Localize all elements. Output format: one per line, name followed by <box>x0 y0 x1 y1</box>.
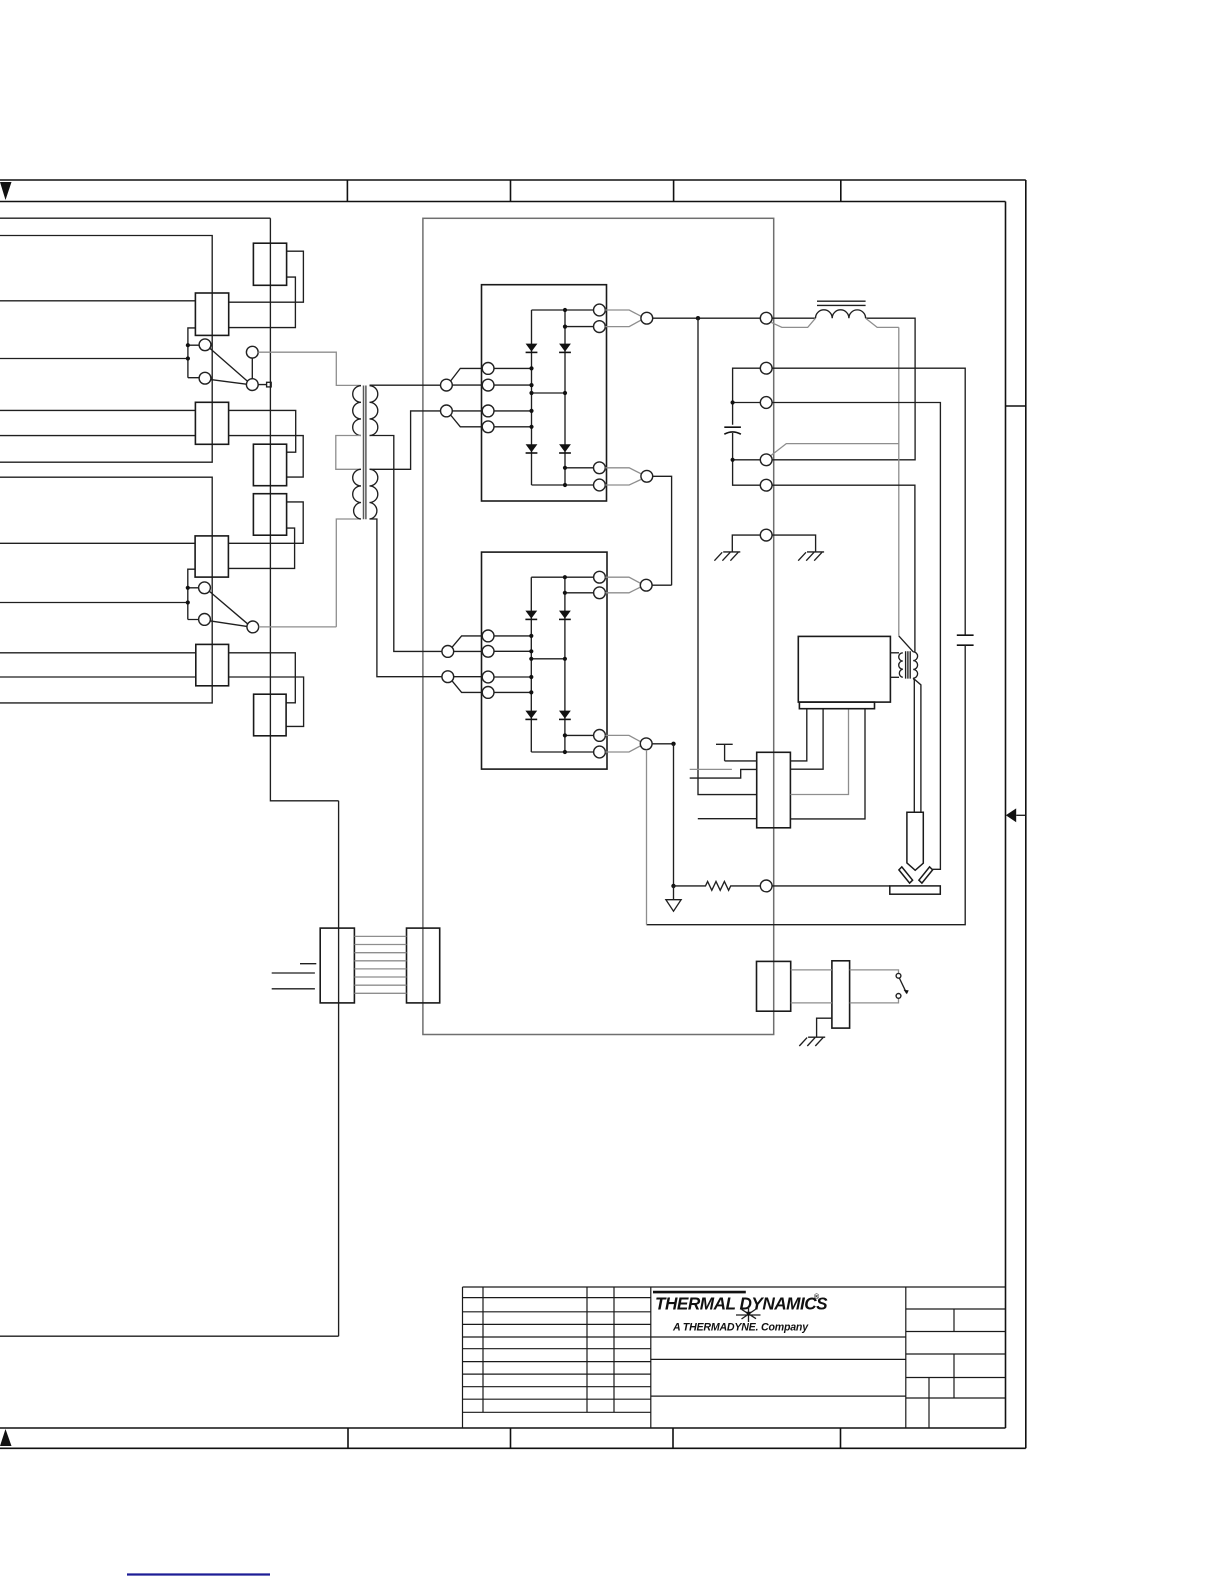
transformer T1 core <box>364 386 366 520</box>
capacitor C2 <box>957 635 974 645</box>
BR2 input terminals <box>482 630 531 698</box>
wire P6 to junction <box>652 742 676 746</box>
torch tip electrode right <box>919 867 933 883</box>
terminal block TB1 on bus <box>253 243 286 285</box>
wire into CB3 <box>0 542 195 544</box>
wire K1 to chassis ground <box>817 1018 832 1037</box>
terminal block TB3 <box>253 494 286 536</box>
wire sec2 top lead <box>370 411 441 469</box>
wire CB4 to TB4 hook b <box>229 677 304 726</box>
resistor R1 <box>674 882 761 891</box>
diode D1 <box>526 344 538 353</box>
Thermal Dynamics logo <box>653 1291 828 1314</box>
zone arrow bottom-left <box>0 1429 12 1446</box>
wire U1 to T2 primary bottom <box>890 676 899 678</box>
wire bottom run riser to P6 <box>646 750 648 925</box>
wire J1 pin1 to U1 <box>790 709 806 761</box>
HF coupling transformer T2 <box>899 651 918 678</box>
plug P2 pin B <box>442 671 482 693</box>
bulkhead terminal A2 <box>760 362 772 374</box>
wire L1 output gray run <box>771 318 899 636</box>
relay K1 coil block <box>757 961 791 1011</box>
transformer T1 secondary winding 1 <box>370 386 378 436</box>
wires into CB4 <box>0 653 196 677</box>
right data cells <box>906 1309 1006 1428</box>
wire C2 to bottom run <box>647 645 966 925</box>
ribbon connector J3 right block <box>407 928 440 1003</box>
wire A3 pilot line to torch tip <box>772 403 940 870</box>
diode D4 <box>559 444 571 453</box>
transformer T1 primary winding 1 <box>353 386 361 436</box>
chassis ground GND2 <box>798 552 824 561</box>
tap switch SW1 <box>199 339 271 391</box>
wire stubs J2 <box>272 964 317 989</box>
wire J1 pin4 to U1 <box>790 709 865 819</box>
svg-text:A THERMADYNE. Company: A THERMADYNE. Company <box>672 1322 809 1334</box>
wire TB3 to CB3 hook b <box>228 528 294 568</box>
bulkhead terminal A1 <box>760 312 772 324</box>
circuit breaker CB4 <box>196 644 229 685</box>
wire CB4 to TB4 hook a <box>229 653 296 703</box>
chassis ground GND1 <box>714 552 740 561</box>
earth ground GND3 <box>666 900 681 912</box>
wire J1 pin1 left <box>725 760 757 762</box>
wire J1 pin4 left <box>698 818 757 820</box>
Thermadyne company text <box>672 1322 809 1334</box>
revision table <box>463 1287 651 1428</box>
bulkhead terminal A6 <box>760 529 772 541</box>
pcb module U1 <box>798 636 890 708</box>
wire CB2 to TB2 hook a <box>229 410 296 452</box>
BR1 output terminals bottom <box>594 462 641 491</box>
bulkhead terminal A3 <box>760 397 772 409</box>
wire TB3 to CB3 hook a <box>228 502 303 543</box>
connector J1 <box>757 752 791 828</box>
switch SW2 bracket <box>0 569 199 619</box>
BR2 output terminals top <box>594 571 641 598</box>
bulkhead terminal A4 <box>760 454 772 466</box>
plug P5 merge circle top <box>640 579 652 591</box>
wire TB1 to CB1 hook a <box>229 251 304 302</box>
circuit breaker CB3 <box>195 536 228 577</box>
wire A8 to work lead <box>772 885 890 887</box>
torch tip electrode left <box>899 867 913 883</box>
plug P3 merge circle top <box>641 312 653 324</box>
antenna tip symbol <box>716 744 733 761</box>
capacitor bank bracket <box>731 368 761 485</box>
diode D7 <box>525 711 537 720</box>
chassis ground GND4 <box>799 1037 825 1046</box>
wire SW2 common to T1 primary bottom and page tail <box>259 519 361 627</box>
circuit breaker CB1 <box>195 293 228 335</box>
wire TB1 to CB1 hook b <box>229 277 296 328</box>
zone arrow top-left <box>0 182 12 200</box>
wire into CB1 <box>0 300 195 302</box>
terminal block TB4 <box>254 694 287 736</box>
wire A2 loop right side <box>772 368 965 635</box>
wire A1 to inductor L1 <box>771 318 816 327</box>
wire BR1- to BR2+ series link <box>652 476 672 585</box>
wire U1 to T2 primary top <box>890 652 899 654</box>
BR1 output terminals top <box>594 304 641 332</box>
work clamp plate <box>890 886 941 894</box>
diode D8 <box>559 711 571 720</box>
logo cell dividers <box>651 1287 906 1428</box>
wire BR1+ output to terminal A1 <box>653 317 761 319</box>
wire J1 pin2 left <box>690 769 757 778</box>
bulkhead terminal A5 <box>760 479 772 491</box>
transformer T1 primary link <box>336 436 361 470</box>
wires K1 links <box>791 970 899 1003</box>
wire L1-1 top feed to bus <box>0 217 270 219</box>
title block outline <box>463 1287 1006 1428</box>
bus V1 vertical <box>0 218 339 1336</box>
wire A6 right to chassis ground <box>772 535 815 552</box>
wire node to earth ground <box>673 886 675 900</box>
plug P1 pin A <box>441 368 483 391</box>
plug P2 pin A <box>442 636 482 657</box>
wire gray run to T2 primary <box>899 636 913 652</box>
relay K1 aux block <box>832 961 850 1028</box>
wire junction drop to J1 pin 3 <box>698 318 757 794</box>
svg-text:THERMAL DYNAMICS: THERMAL DYNAMICS <box>655 1294 828 1314</box>
wire loop W2 <box>0 236 212 463</box>
BR1 junctions <box>529 308 567 487</box>
diode D6 <box>559 611 571 620</box>
hyperlink underline mark <box>127 1573 270 1575</box>
transformer T1 secondary winding 2 <box>370 469 378 519</box>
junction node PLUS <box>696 316 700 320</box>
diode D2 <box>559 344 571 353</box>
wire junction vertical to resistor node <box>671 744 675 888</box>
wire loop W2b <box>0 477 212 703</box>
ribbon cable wires <box>354 936 406 993</box>
wire sec2 bottom lead <box>370 519 442 677</box>
tap switch SW2 <box>199 582 259 633</box>
wire sec1 top lead <box>370 384 441 386</box>
BR2 junctions <box>529 575 567 754</box>
zone arrow right border <box>1006 808 1026 822</box>
wire CB2 to TB2 hook b <box>229 436 304 478</box>
plug P6 merge circle bottom <box>640 738 652 750</box>
wire J1 pin3 to U1 <box>790 709 848 795</box>
ribbon connector J2 left block <box>320 928 354 1003</box>
logo starburst <box>736 1307 761 1322</box>
inductor L1 <box>816 301 866 318</box>
wire SW1 to T1 primary tap <box>258 352 361 385</box>
BR1 internal rails <box>532 310 594 485</box>
switch SW1 bracket <box>0 328 199 378</box>
capacitor C1 <box>724 427 741 434</box>
rectifier bridge BR1 box <box>482 285 607 501</box>
enclosure box (gray chassis outline) <box>423 218 774 1034</box>
wire L1 output black run to A4 <box>772 318 915 460</box>
terminal block TB2 <box>253 444 286 486</box>
BR2 internal rails <box>531 577 593 752</box>
diode D3 <box>526 444 538 453</box>
torch cable pair <box>913 678 921 812</box>
svg-text:®: ® <box>814 1293 820 1301</box>
wire A6 left to chassis ground <box>732 535 760 552</box>
BR2 output terminals bottom <box>594 730 641 758</box>
rectifier bridge BR2 box <box>482 552 608 769</box>
diode D5 <box>525 611 537 620</box>
BR1 input terminals <box>482 363 531 433</box>
transformer T1 primary winding 2 <box>353 469 361 519</box>
wires into CB2 <box>0 410 195 435</box>
circuit breaker CB2 <box>195 402 228 444</box>
plug P4 merge circle bottom <box>641 470 653 482</box>
torch body <box>907 812 923 870</box>
plug P1 pin B <box>441 405 483 427</box>
sheet border frame <box>0 180 1026 1448</box>
wire sec1 bottom lead <box>370 436 442 652</box>
wire A5 to T2 secondary top <box>772 485 915 652</box>
bulkhead terminal A8 <box>760 880 772 892</box>
wire J1 pin2 to U1 <box>790 709 823 770</box>
pressure switch PS1 <box>896 973 909 998</box>
